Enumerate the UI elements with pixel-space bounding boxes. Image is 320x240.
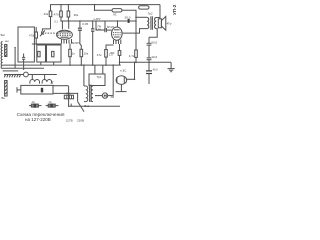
wire V2 anode lead	[117, 21, 119, 27]
wire antenna tap	[14, 48, 16, 69]
capacitor C6	[147, 57, 152, 59]
tube V2 pins	[113, 40, 115, 44]
svg-text:ПЧ: ПЧ	[98, 24, 102, 28]
resistor R1 (top left on rail)	[49, 11, 52, 17]
resistor R11 on B+	[135, 50, 138, 57]
loop antenna left edge coil	[1, 42, 2, 69]
mech dashed link	[45, 32, 57, 34]
lamp L3 pilot	[112, 9, 122, 12]
wire V2 cathode down	[119, 44, 121, 51]
capacitor C5	[147, 42, 152, 44]
tube V1 pins	[61, 39, 63, 43]
resistor R7 cathode V1	[69, 49, 72, 56]
resistor R3	[67, 11, 70, 17]
wire filter cap column	[148, 37, 150, 43]
svg-text:Тр2: Тр2	[148, 11, 153, 15]
capacitor C9 electrolytic 50,0	[128, 19, 130, 23]
wire tuning feed	[42, 29, 50, 31]
chassis hatch	[4, 75, 5, 78]
transformer T1 power	[83, 65, 85, 86]
svg-text:Вк1: Вк1	[84, 104, 89, 108]
wire R3 bottom lead	[67, 17, 69, 21]
wire R1 leads	[50, 17, 52, 29]
svg-text:6П1П: 6П1П	[107, 25, 114, 29]
wire R2 top lead	[60, 5, 62, 11]
box IF unit 2	[37, 45, 46, 62]
wire R3 top lead	[67, 5, 69, 11]
transformer T2out output	[147, 16, 156, 30]
svg-text:0,05: 0,05	[82, 22, 88, 26]
svg-text:1А: 1А	[48, 100, 51, 104]
fuse F3	[64, 95, 73, 99]
transformer T2out primary bottom lead to V2	[122, 29, 147, 33]
fuse F4 on rail	[139, 6, 149, 9]
svg-text:на 127-220В: на 127-220В	[25, 117, 51, 122]
capacitor C4 variable	[41, 31, 43, 35]
wire switch vertical	[77, 93, 79, 101]
coil L1 hatched	[5, 45, 7, 57]
wire V1 grid top lead	[61, 21, 63, 29]
coil L3 humps pair2	[44, 75, 46, 80]
capacitor C8	[92, 21, 94, 28]
wire R2 bottom lead to grid line	[60, 17, 62, 21]
wire left feed down	[68, 86, 70, 107]
box IF unit 3	[47, 45, 62, 62]
wire grid row y44	[32, 43, 62, 45]
box input unit	[18, 27, 34, 62]
resistor R5	[38, 51, 40, 56]
svg-text:к АРУ: к АРУ	[94, 17, 101, 21]
wire C2 to tube V2	[106, 29, 111, 31]
svg-text:470к: 470к	[29, 33, 35, 37]
labels	[1, 11, 172, 122]
svg-text:470: 470	[54, 12, 59, 16]
speaker Gr1	[158, 19, 161, 28]
pickup jack ZS	[116, 76, 127, 85]
transformer T2out primary top lead	[136, 16, 147, 18]
svg-text:Л3: Л3	[113, 13, 117, 17]
jack J1	[24, 72, 29, 77]
capacitor C2 grid of V2	[104, 28, 106, 32]
svg-text:6И1П: 6И1П	[72, 41, 80, 45]
IF transformer box T2	[96, 21, 105, 30]
svg-text:47к: 47к	[97, 53, 102, 57]
fuse F1	[29, 105, 42, 107]
fuse F2	[46, 105, 59, 107]
wire screen line y21	[61, 20, 96, 22]
svg-text:Пр1: Пр1	[66, 92, 71, 96]
resistor R8	[80, 49, 83, 56]
tube V2 envelope	[112, 27, 123, 40]
resistor R10 cathode V2	[118, 51, 121, 56]
resistor R4 470k	[35, 32, 38, 38]
svg-text:10,0: 10,0	[151, 55, 157, 59]
capacitor C1	[79, 21, 81, 28]
svg-text:50,0: 50,0	[125, 15, 131, 19]
wire lamp to B+ vertical	[122, 10, 136, 50]
node dots	[14, 4, 149, 107]
svg-text:УП-2: УП-2	[172, 4, 177, 15]
wire rectifier B+ riser	[112, 65, 114, 96]
svg-text:30к: 30к	[74, 13, 79, 17]
switch SW1	[78, 102, 84, 112]
coil L3 humps pair1	[31, 75, 33, 80]
capacitor C7 electrolytic	[146, 71, 152, 74]
wire right rail drop to speaker	[159, 5, 161, 19]
resistor R9 grid leak V2	[105, 50, 108, 58]
svg-text:АВ: АВ	[111, 95, 115, 99]
wire mid ground rail	[3, 64, 121, 66]
svg-text:к ЗС: к ЗС	[120, 69, 127, 73]
wire bottom right bus	[120, 61, 172, 63]
wire V1 anode top lead	[68, 21, 70, 29]
svg-text:0,1: 0,1	[54, 20, 58, 24]
wire top B+ rail	[51, 5, 161, 11]
wire ground bus left y68	[3, 67, 44, 69]
svg-text:анг: анг	[5, 40, 9, 43]
wire mains bottom	[53, 92, 78, 94]
node A	[17, 74, 19, 76]
tube V1 envelope	[57, 30, 73, 39]
svg-text:10к: 10к	[84, 52, 89, 56]
svg-text:4Гр: 4Гр	[167, 22, 172, 26]
diode D1	[102, 93, 107, 98]
rectifier box	[89, 74, 105, 86]
wire ZS ground	[120, 84, 122, 91]
resistor R6	[52, 51, 54, 56]
coil L4 hatched vertical	[5, 81, 8, 97]
ground symbol right	[170, 62, 172, 68]
capacitor C10 in box	[41, 88, 43, 93]
svg-text:40,0: 40,0	[153, 67, 159, 71]
headphone box	[21, 85, 53, 94]
svg-text:300: 300	[110, 51, 115, 55]
svg-text:Вн: Вн	[1, 96, 5, 100]
svg-text:127В: 127В	[66, 119, 73, 123]
tube V1 electrodes	[59, 31, 70, 33]
wire mains top	[53, 85, 68, 87]
capacitor C3	[22, 56, 25, 58]
wire mains line	[69, 105, 120, 107]
resistor R2	[60, 11, 63, 17]
svg-text:2А: 2А	[32, 100, 35, 104]
wire bus left y70.9	[3, 70, 19, 72]
svg-text:Тр1: Тр1	[97, 75, 102, 79]
svg-text:Вкл: Вкл	[1, 33, 6, 37]
svg-text:50,0: 50,0	[151, 41, 157, 45]
wire jack line	[4, 74, 24, 76]
svg-text:220В: 220В	[77, 119, 84, 123]
wire secondary to speaker	[156, 18, 160, 19]
svg-text:43к: 43к	[44, 12, 49, 16]
wire box stubs	[40, 62, 42, 65]
svg-text:4,7к: 4,7к	[129, 54, 135, 58]
wire lamp feed	[95, 5, 113, 11]
tube V2 electrodes	[114, 29, 120, 31]
